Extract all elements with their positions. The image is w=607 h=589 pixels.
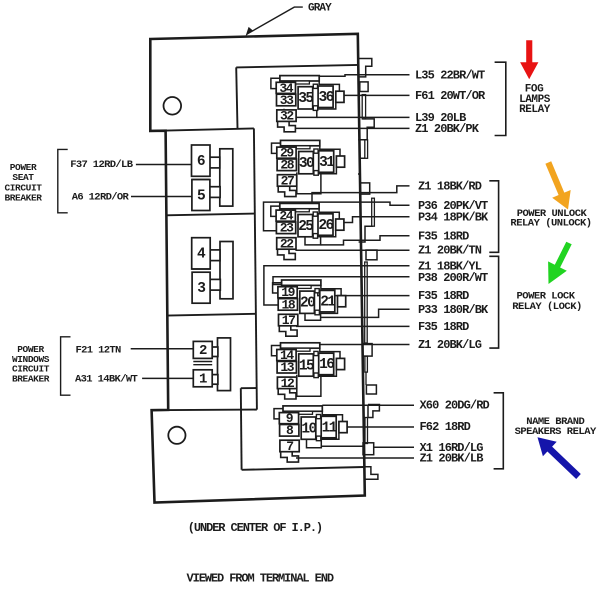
terminal 7 bbox=[280, 439, 299, 454]
svg-text:3: 3 bbox=[197, 281, 205, 297]
fuse block outer shell bbox=[150, 34, 364, 503]
relay socket C5 (spare) bar-left bracket bbox=[272, 346, 281, 356]
wire label Z1 18BK/RD bbox=[418, 180, 482, 194]
edge rib a bbox=[362, 95, 365, 119]
blue arrow (speakers relay pointer) bbox=[538, 437, 581, 479]
svg-text:27: 27 bbox=[281, 173, 294, 188]
edge clip square b bbox=[360, 183, 370, 194]
svg-text:GRAY: GRAY bbox=[308, 3, 332, 15]
relay socket C4 (power lock) foot bbox=[279, 326, 297, 336]
svg-text:6: 6 bbox=[197, 154, 205, 170]
relay socket C5 (spare) bottom plate bbox=[297, 375, 321, 397]
terminal 22 bbox=[277, 236, 296, 251]
wire A6 12RD/OR leader bbox=[131, 196, 192, 198]
wire label F21 12TN bbox=[76, 345, 122, 357]
relay socket C4 (power lock) bar lip bbox=[283, 285, 311, 288]
bracket power lock group bbox=[489, 256, 498, 348]
terminal 15 tab upper bbox=[314, 351, 318, 355]
relay socket C6 (speakers) right outline b bbox=[321, 433, 339, 440]
relay socket C5 (spare) foot bbox=[278, 389, 296, 399]
relay socket C4 (power lock) right outline b bbox=[319, 307, 337, 314]
svg-text:33: 33 bbox=[280, 93, 294, 108]
wire P36 20PK/VT leader bbox=[264, 202, 410, 231]
relay socket C4 (power lock) bar-left bracket bbox=[273, 283, 282, 293]
terminal 35 tab lower bbox=[313, 106, 317, 111]
terminal 4 bbox=[192, 238, 211, 269]
wire label X1 16RD/LG bbox=[420, 441, 484, 455]
terminal 3 tab bbox=[207, 279, 220, 290]
terminal 10 tab upper bbox=[316, 415, 320, 419]
terminal 2 tab bbox=[208, 347, 218, 357]
relay socket C6 (speakers) bar lip bbox=[285, 411, 313, 414]
relay socket C3 (power unlock) right outline b bbox=[318, 230, 336, 237]
terminal 35 bbox=[298, 87, 313, 109]
relay socket C1 (fog lamps) right outline b bbox=[318, 102, 336, 109]
caption viewed from terminal end bbox=[187, 572, 334, 586]
wire label L35 22BR/WT bbox=[415, 68, 485, 82]
terminal 23 bbox=[276, 221, 295, 236]
breaker bay divider y215 bbox=[166, 214, 255, 216]
relay socket C5 (spare) top bar bbox=[281, 343, 320, 348]
svg-text:(UNDER CENTER OF I.P.): (UNDER CENTER OF I.P.) bbox=[188, 521, 322, 535]
relay socket C3 (power unlock) side lug bbox=[336, 219, 344, 230]
terminal 30 bbox=[299, 152, 314, 174]
svg-text:P38 200R/WT: P38 200R/WT bbox=[418, 271, 488, 285]
wire label A31 14BK/WT bbox=[75, 374, 138, 386]
terminal 3 bbox=[192, 272, 210, 303]
relay socket C6 (speakers) top bar bbox=[283, 406, 322, 411]
svg-text:RELAY: RELAY bbox=[519, 104, 551, 116]
svg-text:RELAY (UNLOCK): RELAY (UNLOCK) bbox=[510, 218, 591, 230]
terminal 14 bbox=[277, 348, 296, 363]
relay socket C1 (fog lamps) foot bbox=[278, 121, 296, 131]
edge clip hook top bbox=[358, 59, 372, 77]
inner compartment left wall upper bbox=[236, 67, 237, 128]
terminal 24 bbox=[276, 209, 295, 224]
orange arrow (power unlock relay pointer) bbox=[545, 161, 570, 209]
green arrow (power lock relay pointer) bbox=[548, 242, 572, 284]
inner compartment left wall lower bbox=[240, 388, 243, 470]
wire Z1 20BK/PK leader bbox=[295, 127, 409, 129]
terminal 36 bbox=[318, 86, 333, 108]
svg-text:21: 21 bbox=[320, 294, 336, 310]
terminal 30 tab lower bbox=[314, 171, 318, 176]
terminal 19 bbox=[278, 285, 297, 300]
svg-text:25: 25 bbox=[298, 219, 313, 235]
terminal 20 bbox=[300, 291, 315, 313]
label power lock relay bbox=[512, 290, 582, 313]
terminal 13 bbox=[277, 360, 296, 375]
relay socket C3 (power unlock) bar lip bbox=[281, 209, 309, 212]
svg-text:1: 1 bbox=[199, 372, 207, 388]
terminal 1 tab bbox=[207, 375, 218, 385]
wire label L39 20LB bbox=[415, 111, 466, 125]
svg-text:11: 11 bbox=[322, 420, 338, 436]
breaker column right wall bbox=[254, 128, 257, 409]
wire label F37 12RD/LB bbox=[70, 159, 134, 171]
edge rib e bbox=[365, 356, 368, 372]
relay socket C1 (fog lamps) side lug bbox=[336, 91, 344, 102]
svg-text:A6 12RD/OR: A6 12RD/OR bbox=[72, 191, 130, 203]
edge rib c bbox=[372, 198, 375, 226]
terminal 10 bbox=[301, 417, 316, 439]
relay socket C1 (fog lamps) bar-left bracket bbox=[271, 78, 280, 88]
breaker bay divider y131 bbox=[151, 128, 254, 131]
relay socket C2 (spare) bottom plate bbox=[297, 172, 321, 194]
wire label Z1 18BK/YL bbox=[418, 259, 482, 273]
svg-text:F62 18RD: F62 18RD bbox=[420, 420, 471, 434]
terminal 8 bbox=[280, 423, 299, 438]
svg-text:P34 18PK/BK: P34 18PK/BK bbox=[418, 210, 489, 224]
relay socket C3 (power unlock) bar-left bracket bbox=[271, 206, 280, 216]
terminal 26 bbox=[318, 214, 333, 236]
relay socket C4 (power lock) side lug bbox=[338, 296, 346, 307]
wire Z1 20BK/TN leader bbox=[295, 249, 409, 251]
relay socket C4 (power lock) right outline a bbox=[321, 285, 341, 295]
wire label A6 12RD/OR bbox=[72, 191, 130, 203]
svg-text:31: 31 bbox=[319, 155, 335, 171]
svg-text:F35 18RD: F35 18RD bbox=[418, 289, 469, 303]
wire P38 20OR/WT leader bbox=[273, 277, 410, 285]
breaker bay divider y410 bbox=[152, 409, 257, 412]
wire F35 18RD leader (lock b) bbox=[296, 325, 410, 327]
label power windows circuit breaker bbox=[12, 344, 50, 384]
svg-text:23: 23 bbox=[280, 221, 294, 236]
relay socket C3 (power unlock) foot bbox=[278, 249, 296, 259]
svg-text:5: 5 bbox=[197, 188, 205, 204]
relay socket C1 (fog lamps) right outline a bbox=[319, 81, 339, 91]
relay socket C6 (speakers) right outline a bbox=[322, 411, 342, 421]
bracket power unlock group bbox=[489, 181, 498, 253]
terminal 32 bbox=[277, 109, 296, 124]
label fog lamps relay bbox=[519, 84, 551, 116]
edge step c bbox=[358, 158, 365, 174]
edge rib f bbox=[365, 418, 368, 444]
red arrow (fog lamps relay pointer) bbox=[520, 40, 538, 79]
inner compartment top wall bbox=[236, 65, 358, 68]
label power unlock relay bbox=[510, 208, 591, 230]
terminal 15 bbox=[299, 354, 314, 376]
breaker power windows body bbox=[218, 338, 231, 391]
svg-text:30: 30 bbox=[299, 156, 314, 172]
svg-text:7: 7 bbox=[286, 439, 293, 454]
wire label Z1 20BK/PK bbox=[415, 122, 480, 136]
relay socket C2 (spare) right outline b bbox=[318, 167, 336, 174]
svg-text:28: 28 bbox=[280, 158, 294, 173]
wire label F35 18RD bbox=[418, 289, 469, 303]
breaker spare body bbox=[220, 242, 233, 299]
svg-text:X60 20DG/RD: X60 20DG/RD bbox=[420, 399, 490, 413]
breaker power seat divider bbox=[192, 176, 211, 179]
terminal 20 tab upper bbox=[315, 289, 319, 293]
wire F35 18RD leader (unlock) bbox=[321, 236, 410, 245]
caption (under center of i.p.) bbox=[188, 521, 322, 535]
svg-text:P33 180R/BK: P33 180R/BK bbox=[418, 303, 489, 317]
relay socket C2 (spare) foot bbox=[278, 186, 296, 196]
relay socket C1 (fog lamps) bar lip bbox=[281, 81, 309, 84]
relay socket C6 (speakers) side lug bbox=[339, 422, 347, 433]
terminal 5 tab bbox=[207, 187, 220, 198]
wire F21 12TN leader bbox=[131, 348, 193, 350]
svg-text:BREAKER: BREAKER bbox=[4, 193, 42, 204]
wire label Z1 20BK/LB bbox=[420, 451, 484, 465]
relay socket C3 (power unlock) top bar bbox=[280, 203, 319, 208]
svg-text:Z1 20BK/LG: Z1 20BK/LG bbox=[418, 338, 482, 352]
inner compartment bottom wall bbox=[242, 467, 364, 470]
svg-text:Z1 18BK/RD: Z1 18BK/RD bbox=[418, 180, 482, 194]
edge clip square a bbox=[360, 82, 368, 92]
wire Z1 18BK/RD leader bbox=[312, 186, 410, 204]
svg-text:Z1 20BK/TN: Z1 20BK/TN bbox=[418, 244, 482, 258]
svg-text:RELAY (LOCK): RELAY (LOCK) bbox=[512, 301, 582, 313]
wire Z1 20BK/LB leader bbox=[296, 457, 414, 459]
svg-text:F21 12TN: F21 12TN bbox=[76, 345, 122, 357]
wire label P33 180R/BK bbox=[418, 303, 489, 317]
svg-text:L35 22BR/WT: L35 22BR/WT bbox=[415, 68, 485, 82]
wire label P38 200R/WT bbox=[418, 271, 488, 285]
terminal 20 tab lower bbox=[315, 310, 319, 315]
wire F37 12RD/LB leader bbox=[136, 164, 191, 166]
terminal 16 bbox=[319, 353, 334, 375]
relay socket C4 (power lock) bottom plate bbox=[305, 313, 321, 321]
edge clip hook g bbox=[364, 467, 378, 480]
bracket fog lamps group bbox=[495, 62, 506, 135]
svg-text:10: 10 bbox=[301, 422, 316, 438]
svg-text:17: 17 bbox=[282, 313, 295, 328]
svg-text:VIEWED FROM TERMINAL END: VIEWED FROM TERMINAL END bbox=[187, 572, 334, 586]
bracket power windows group bbox=[61, 337, 71, 395]
svg-text:15: 15 bbox=[299, 358, 314, 374]
relay socket C6 (speakers) bottom plate bbox=[307, 439, 322, 448]
relay socket C3 (power unlock) bottom plate bbox=[305, 237, 321, 245]
mounting hole top-left bbox=[164, 97, 182, 115]
svg-text:F35 18RD: F35 18RD bbox=[418, 229, 469, 243]
svg-text:Z1 20BK/PK: Z1 20BK/PK bbox=[415, 122, 480, 136]
terminal 29 bbox=[277, 146, 296, 161]
wire A31 14BK/WT leader bbox=[142, 377, 193, 379]
wire Z1 20BK/LG leader bbox=[290, 344, 410, 346]
relay socket C2 (spare) top bar bbox=[281, 140, 320, 145]
svg-text:32: 32 bbox=[280, 109, 294, 124]
relay socket C5 (spare) bar lip bbox=[282, 348, 310, 351]
inner compartment step y388 bbox=[241, 387, 257, 389]
wire F35 18RD leader (lock a) bbox=[318, 293, 410, 296]
terminal 34 bbox=[276, 81, 295, 96]
terminal 5 bbox=[192, 180, 210, 211]
relay socket C2 (spare) bar-left bracket bbox=[272, 143, 281, 153]
relay socket C5 (spare) right outline b bbox=[318, 370, 336, 377]
edge clip square e bbox=[366, 385, 376, 394]
connector color label GRAY bbox=[308, 3, 332, 15]
svg-text:26: 26 bbox=[318, 218, 333, 234]
svg-text:Z1 20BK/LB: Z1 20BK/LB bbox=[420, 451, 484, 465]
edge clip hook f bbox=[368, 405, 379, 418]
edge clip hook e bbox=[365, 372, 367, 385]
terminal 12 bbox=[277, 376, 296, 391]
edge clip square f bbox=[363, 443, 374, 455]
breaker bay divider y314 bbox=[167, 314, 256, 316]
wire P33 18OR/BK leader bbox=[321, 309, 410, 317]
terminal 30 tab upper bbox=[314, 149, 318, 153]
svg-text:F35 18RD: F35 18RD bbox=[418, 320, 469, 334]
wire label F62 18RD bbox=[420, 420, 471, 434]
relay socket C5 (spare) side lug bbox=[336, 358, 344, 369]
terminal 18 bbox=[278, 297, 297, 312]
wire label Z1 20BK/TN bbox=[418, 244, 482, 258]
relay socket C3 (power unlock) right outline a bbox=[319, 209, 339, 219]
svg-text:22: 22 bbox=[280, 236, 294, 251]
terminal 33 bbox=[277, 93, 296, 108]
connector color label GRAY arrowhead bbox=[246, 27, 253, 36]
terminal 21 bbox=[320, 290, 336, 312]
svg-text:36: 36 bbox=[318, 90, 333, 106]
svg-text:BREAKER: BREAKER bbox=[12, 373, 50, 384]
relay socket C2 (spare) right outline a bbox=[320, 146, 340, 156]
svg-text:20: 20 bbox=[300, 296, 315, 312]
svg-text:F37 12RD/LB: F37 12RD/LB bbox=[70, 159, 134, 171]
terminal 6 tab bbox=[207, 157, 220, 168]
svg-text:2: 2 bbox=[199, 343, 207, 359]
wire label P34 18PK/BK bbox=[418, 210, 489, 224]
wire label Z1 20BK/LG bbox=[418, 338, 482, 352]
wire X1 16RD/LG leader b bbox=[374, 446, 414, 448]
mounting hole bottom-left bbox=[168, 427, 185, 444]
wire label F61 20WT/OR bbox=[415, 89, 486, 103]
svg-text:12: 12 bbox=[281, 376, 295, 391]
svg-text:F61 20WT/OR: F61 20WT/OR bbox=[415, 89, 486, 103]
terminal 31 bbox=[319, 151, 335, 173]
relay socket C2 (spare) side lug bbox=[336, 156, 344, 167]
terminal 6 bbox=[192, 145, 211, 176]
edge clip square d bbox=[363, 344, 373, 357]
breaker spare divider bbox=[192, 269, 211, 272]
wire label F35 18RD bbox=[418, 320, 469, 334]
terminal 10 tab lower bbox=[316, 436, 320, 441]
wire L39 20LB leader bbox=[317, 116, 410, 118]
wire label P36 20PK/VT bbox=[418, 199, 488, 213]
wire X60 20DG/RD leader bbox=[322, 404, 414, 406]
breaker power windows divider bbox=[193, 362, 212, 365]
wire X1 16RD/LG leader a bbox=[321, 445, 363, 447]
edge rib b bbox=[365, 140, 368, 159]
relay socket C4 (power lock) top bar bbox=[282, 280, 321, 285]
relay socket C2 (spare) bar lip bbox=[282, 146, 310, 149]
terminal 28 bbox=[277, 158, 296, 173]
terminal 17 bbox=[279, 313, 298, 328]
relay socket C5 (spare) right outline a bbox=[320, 348, 340, 358]
svg-text:4: 4 bbox=[197, 247, 206, 263]
svg-text:A31 14BK/WT: A31 14BK/WT bbox=[75, 374, 138, 386]
terminal 2 bbox=[193, 341, 212, 359]
relay socket C6 (speakers) bar-left bracket bbox=[274, 409, 283, 419]
terminal 25 tab lower bbox=[313, 234, 317, 239]
terminal 35 tab upper bbox=[313, 84, 317, 88]
relay socket C1 (fog lamps) top bar bbox=[280, 76, 319, 81]
svg-text:18: 18 bbox=[281, 297, 295, 312]
wire P34 18PK/BK leader bbox=[344, 217, 410, 223]
terminal 1 bbox=[193, 370, 212, 388]
svg-text:16: 16 bbox=[319, 357, 334, 373]
edge clip hook d bbox=[359, 226, 373, 242]
wire Z1 18BK/YL leader bbox=[264, 266, 410, 305]
connector color label GRAY leader bbox=[247, 7, 303, 34]
relay socket C1 (fog lamps) bottom plate bbox=[284, 109, 317, 118]
edge clip hook b bbox=[358, 119, 374, 140]
wire F61 20WT/OR leader bbox=[344, 94, 410, 96]
relay socket C6 (speakers) foot bbox=[281, 452, 299, 462]
wire L35 22BR/WT leader bbox=[319, 75, 410, 77]
label name brand speakers relay bbox=[515, 416, 597, 438]
terminal 15 tab lower bbox=[314, 373, 318, 378]
terminal 11 bbox=[321, 416, 337, 438]
bracket power seat group bbox=[58, 149, 68, 212]
breaker power seat body bbox=[220, 149, 233, 206]
terminal 25 bbox=[298, 215, 313, 237]
wire label X60 20DG/RD bbox=[420, 399, 490, 413]
terminal 27 bbox=[277, 173, 296, 188]
bracket speakers group bbox=[494, 393, 504, 469]
svg-text:35: 35 bbox=[298, 91, 313, 107]
terminal 25 tab upper bbox=[313, 212, 317, 216]
svg-text:SPEAKERS RELAY: SPEAKERS RELAY bbox=[515, 426, 597, 438]
terminal 9 bbox=[279, 411, 298, 426]
wire label F35 18RD bbox=[418, 229, 469, 243]
label power seat circuit breaker bbox=[4, 162, 42, 204]
wire F62 18RD leader bbox=[347, 426, 414, 428]
svg-text:13: 13 bbox=[280, 360, 294, 375]
edge clip square c bbox=[366, 250, 377, 260]
edge rib d bbox=[365, 262, 368, 343]
terminal 4 tab bbox=[207, 250, 220, 261]
